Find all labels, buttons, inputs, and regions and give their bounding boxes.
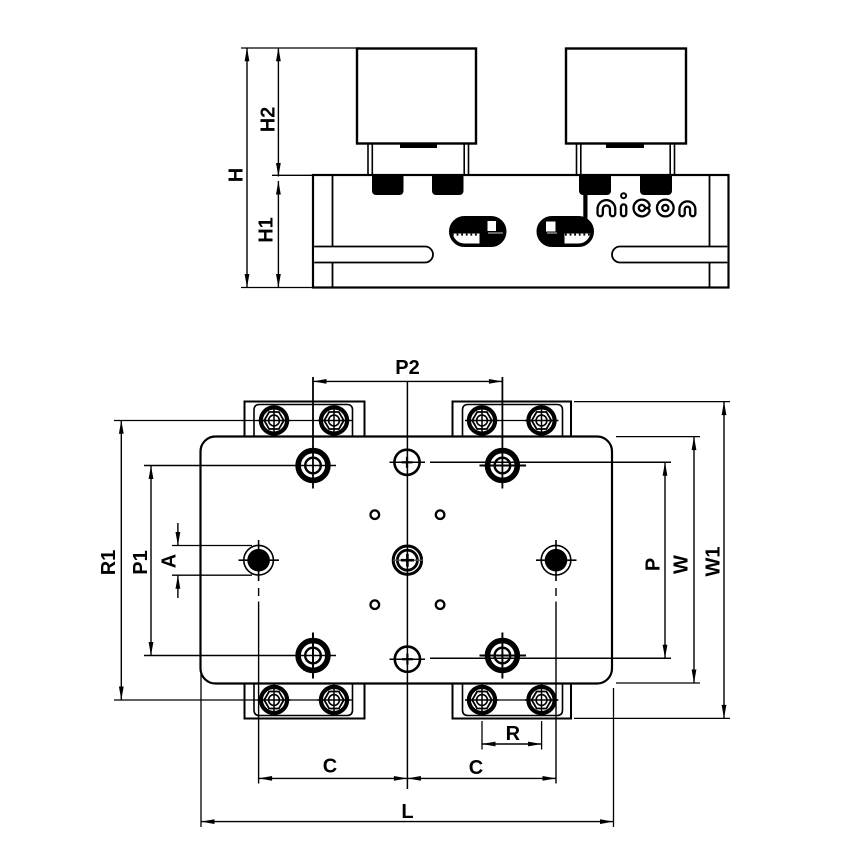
solenoid coil 1 block [357, 49, 476, 144]
filled hole right [536, 540, 577, 784]
filled hole left (A) [239, 540, 280, 784]
dimension W1 [574, 402, 730, 719]
dimension H [226, 48, 361, 288]
valve body (side view) [313, 175, 729, 288]
bolt top-left-2 [318, 405, 351, 436]
svg-text:H1: H1 [256, 217, 278, 243]
center hole [393, 546, 423, 574]
bottom-center hole [390, 647, 426, 672]
svg-text:R: R [506, 723, 521, 745]
port slot right (pill) [538, 217, 594, 246]
svg-text:H: H [226, 168, 248, 182]
right end plate line [709, 175, 711, 288]
crosshair hole bottom-right [488, 633, 518, 679]
dimension A [159, 523, 253, 598]
solenoid coil 2 block [566, 49, 686, 144]
solenoid coil 2 neck [577, 144, 675, 176]
small hole lower-left [371, 600, 380, 609]
crosshair hole top-right [488, 377, 518, 489]
nicon logo [600, 193, 693, 214]
mounting slot right (side view) [612, 247, 727, 263]
small hole lower-right [436, 600, 445, 609]
bolt bottom-left-1 [258, 685, 291, 716]
dimension H2 [258, 48, 281, 177]
dimension H1 [256, 181, 281, 288]
bolt top-left-1 [258, 405, 291, 436]
bolt top-right-2 [525, 405, 558, 436]
bolt bottom-right-1 [466, 685, 499, 716]
dimension P1 [130, 466, 153, 656]
dimension P2 [313, 357, 502, 384]
dimension P [643, 462, 668, 658]
row line through crosshair holes top [144, 462, 671, 465]
dimension L [201, 672, 614, 827]
svg-text:W1: W1 [703, 547, 725, 577]
mounting tab top-left [245, 402, 365, 437]
small hole upper-right [436, 510, 445, 519]
svg-text:R1: R1 [98, 550, 120, 576]
svg-text:C: C [469, 757, 483, 779]
bolt top-right-1 [466, 405, 499, 436]
solenoid coil 2 terminals [579, 175, 672, 195]
mounting slot left (side view) [314, 247, 433, 263]
svg-text:P1: P1 [130, 550, 152, 574]
svg-text:C: C [323, 756, 337, 778]
dimension R [482, 721, 542, 750]
dimension W [616, 437, 700, 683]
crosshair hole bottom-left [298, 633, 328, 679]
wire from solenoid 2 terminal [583, 195, 587, 223]
row line through crosshair holes bottom [144, 656, 671, 659]
svg-text:P2: P2 [395, 357, 419, 379]
dimension R1 [98, 420, 124, 700]
base plate (plan view) [201, 437, 613, 684]
solenoid coil 1 neck [368, 144, 469, 176]
svg-text:W: W [671, 555, 693, 574]
mounting tab top-right [453, 402, 572, 437]
mounting tab bottom-left [245, 684, 365, 719]
dimension C right [407, 757, 556, 781]
bolt row centerline bottom [114, 699, 559, 701]
bolt bottom-right-2 [525, 685, 558, 716]
svg-text:H2: H2 [258, 107, 280, 133]
dimension C left [259, 756, 408, 781]
solenoid coil 1 terminals [372, 175, 464, 195]
crosshair hole top-left [298, 377, 328, 489]
svg-text:L: L [401, 801, 413, 823]
svg-text:A: A [159, 554, 181, 568]
svg-text:P: P [643, 558, 665, 571]
vertical centerline of plate [406, 381, 408, 789]
bolt row centerline top [114, 420, 559, 422]
mounting tab bottom-right [453, 684, 572, 719]
top-center hole [390, 450, 426, 475]
small hole upper-left [371, 510, 380, 519]
bolt bottom-left-2 [318, 685, 351, 716]
port slot left (pill) [446, 217, 506, 246]
left end plate line [332, 175, 334, 288]
